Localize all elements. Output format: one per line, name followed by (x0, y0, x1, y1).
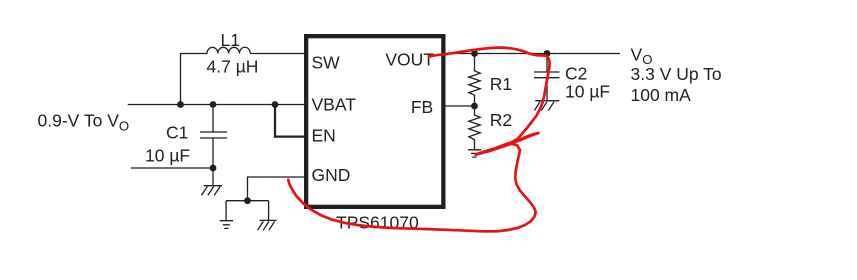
ground chassis under C1 (201, 168, 222, 195)
svg-text:VOUT: VOUT (385, 50, 434, 70)
op-amp U1 TPS61070 box (306, 36, 443, 207)
wire FB segment (446, 105, 475, 107)
svg-text:100 mA: 100 mA (631, 85, 692, 105)
node junction C1 bottom (210, 165, 217, 172)
node junction R1/R2 (471, 103, 478, 110)
svg-text:L1: L1 (221, 30, 240, 50)
capacitor C2 (534, 54, 560, 101)
capacitor C1 (200, 105, 227, 169)
wire VOUT output rail (446, 53, 621, 55)
inductor L1 (207, 47, 250, 53)
svg-text:SW: SW (312, 53, 341, 73)
red annotation main stroke (288, 48, 549, 232)
node junction EN branch (272, 101, 279, 108)
node junction input/left branch (177, 101, 184, 108)
wire lower-left return rail (131, 167, 213, 169)
svg-text:3.3 V Up To: 3.3 V Up To (631, 64, 722, 84)
wire GND pin (226, 177, 304, 201)
svg-text:R1: R1 (490, 74, 512, 94)
svg-text:EN: EN (312, 125, 336, 145)
svg-text:GND: GND (312, 165, 351, 185)
svg-text:C1: C1 (166, 123, 188, 143)
wire left branch up to inductor (181, 54, 208, 105)
wire SW segment (250, 53, 304, 55)
ground earth left (220, 201, 233, 229)
node junction ground (244, 197, 251, 204)
svg-text:10 µF: 10 µF (565, 82, 610, 102)
ground earth under R2 (468, 150, 481, 157)
resistor R1 (469, 54, 480, 107)
red annotation scribble overlap 2 (484, 136, 531, 153)
ground chassis under C2 (534, 101, 559, 111)
svg-text:FB: FB (411, 97, 433, 117)
svg-text:VBAT: VBAT (312, 95, 357, 115)
ground chassis right (258, 201, 277, 231)
node junction C2 top (544, 50, 551, 57)
svg-text:C2: C2 (565, 64, 587, 84)
wire input top rail (128, 104, 304, 106)
node junction R1 top (471, 50, 478, 57)
red annotation scribble overlap 1 (476, 133, 538, 154)
resistor R2 (469, 106, 480, 150)
svg-text:4.7 µH: 4.7 µH (207, 57, 259, 77)
svg-text:0.9-V To VO: 0.9-V To VO (38, 110, 130, 133)
svg-text:R2: R2 (490, 110, 512, 130)
svg-text:10 µF: 10 µF (145, 145, 190, 165)
node junction C1 top (210, 101, 217, 108)
wire EN jog (275, 105, 304, 137)
